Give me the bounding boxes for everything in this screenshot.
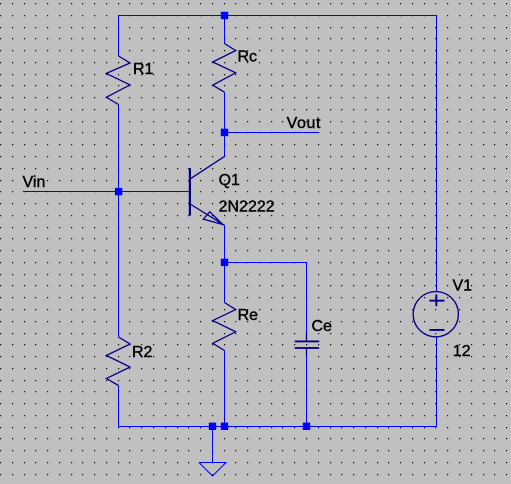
svg-text:Vin: Vin [23, 174, 46, 191]
svg-text:Re: Re [238, 307, 259, 324]
svg-text:R1: R1 [133, 61, 154, 78]
svg-text:Q1: Q1 [219, 172, 240, 189]
svg-text:12: 12 [453, 343, 471, 360]
svg-text:Ce: Ce [312, 318, 333, 335]
svg-text:2N2222: 2N2222 [219, 199, 275, 216]
svg-text:V1: V1 [453, 277, 473, 294]
svg-text:Vout: Vout [287, 115, 321, 132]
svg-text:Rc: Rc [238, 49, 258, 66]
svg-text:R2: R2 [132, 344, 153, 361]
